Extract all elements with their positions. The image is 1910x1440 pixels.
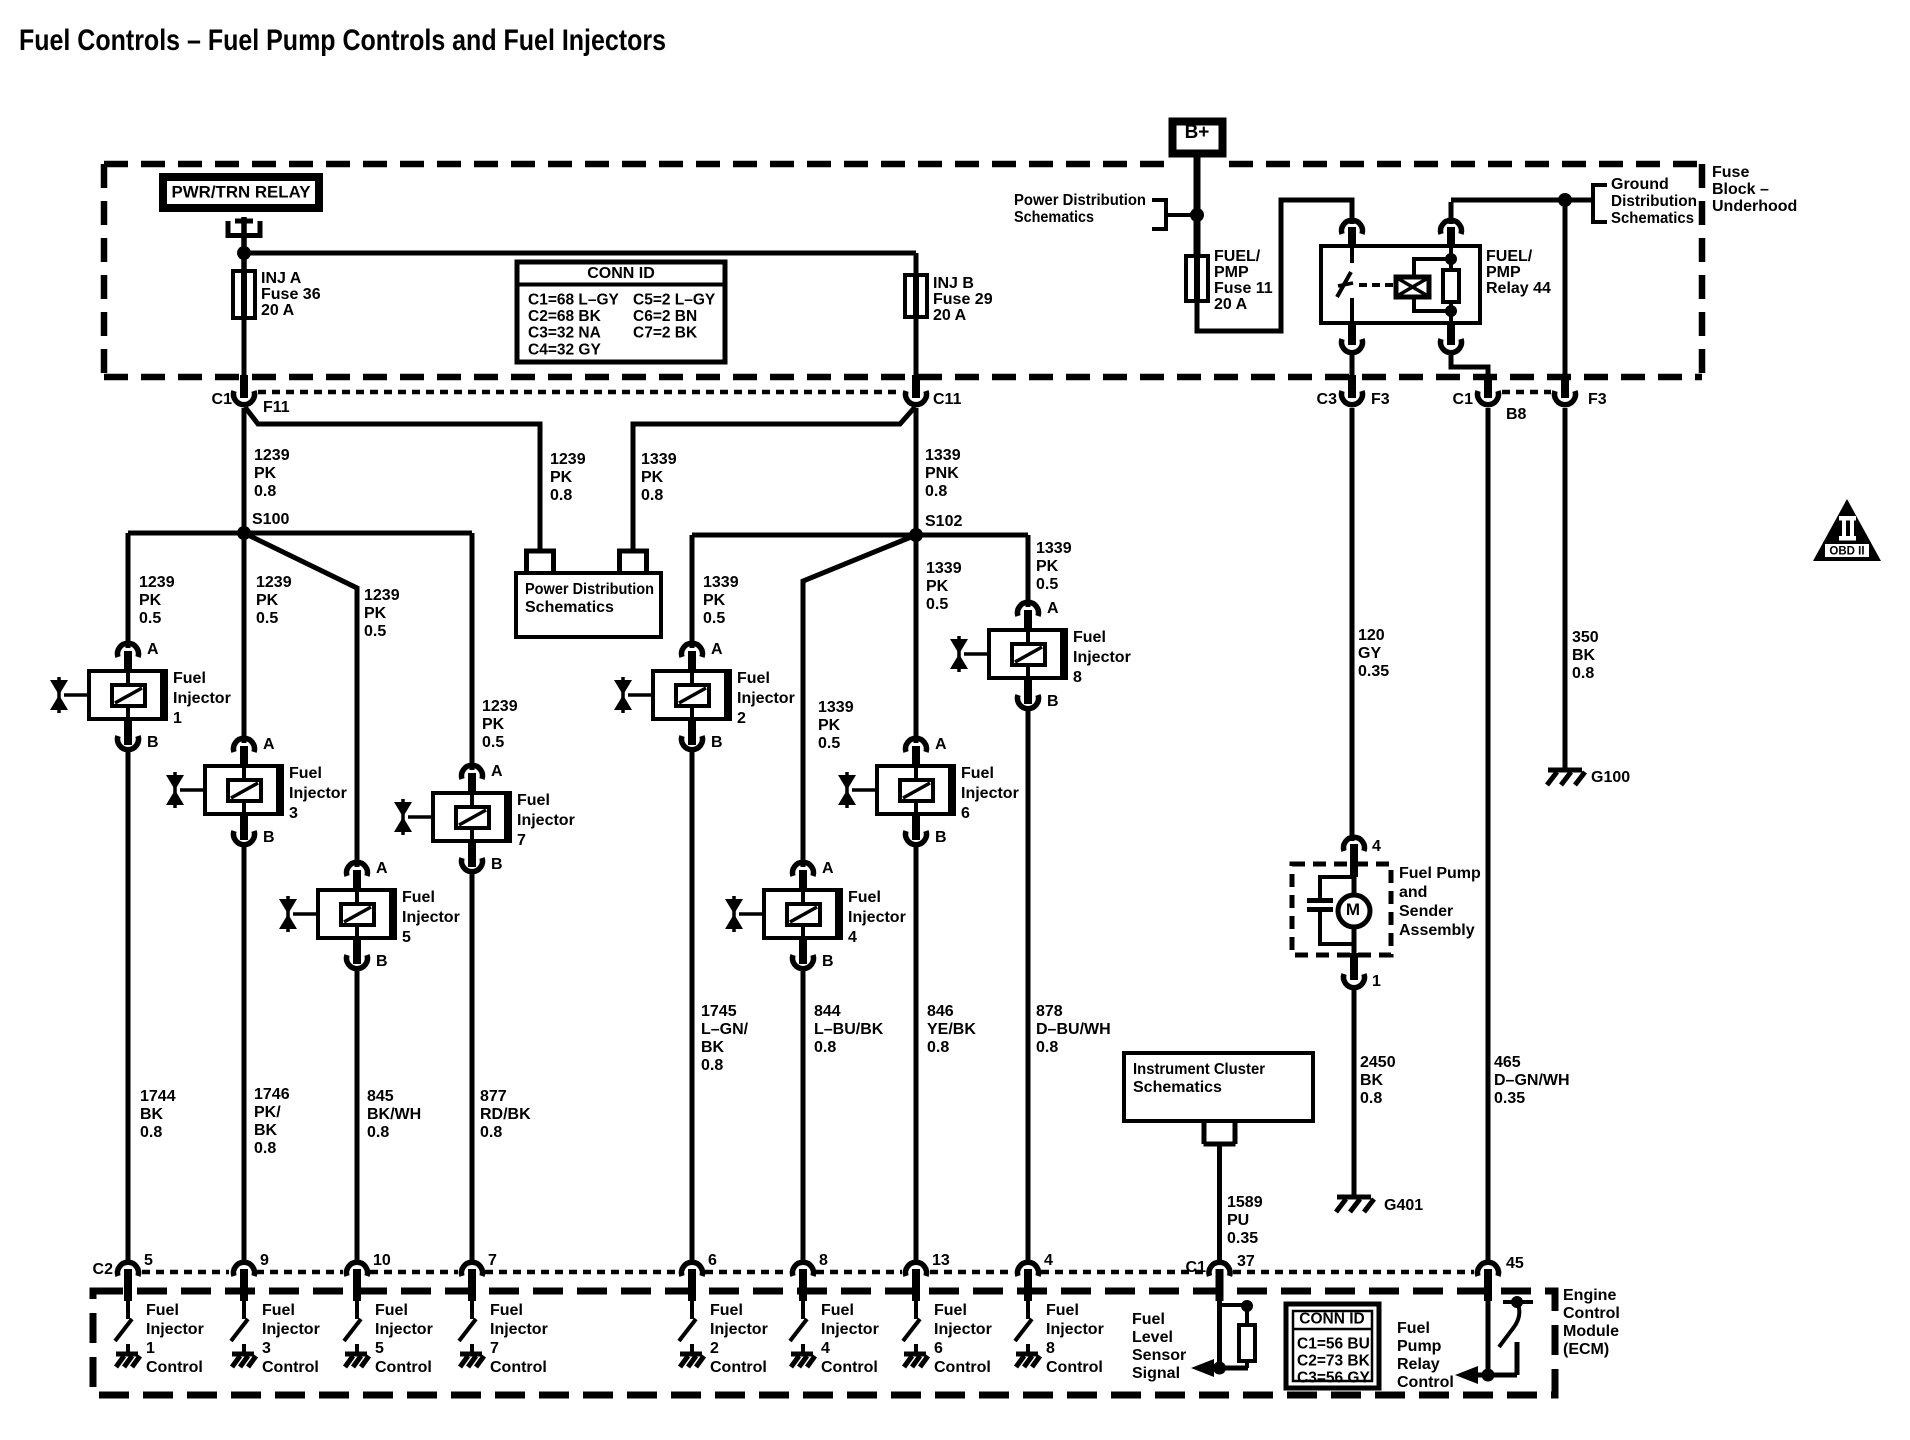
svg-text:0.8: 0.8 <box>367 1124 389 1141</box>
svg-text:Fuel: Fuel <box>402 889 435 906</box>
svg-text:PNK: PNK <box>925 465 959 482</box>
svg-text:4: 4 <box>848 929 857 946</box>
fuel injector 8 nozzle link wire <box>964 652 989 656</box>
svg-text:Control: Control <box>490 1359 547 1376</box>
wire 2450 BK 0.8 fuel pump to G401 <box>1352 990 1357 1197</box>
fuel injector 5 nozzle symbol <box>279 899 297 914</box>
svg-text:6: 6 <box>961 805 970 822</box>
svg-text:Injector: Injector <box>402 909 460 926</box>
ECM injector 4 driver ground <box>801 1344 805 1354</box>
splice S102 <box>909 528 923 542</box>
fuel injector 6 coil <box>900 780 933 801</box>
svg-text:Control: Control <box>1046 1359 1103 1376</box>
svg-text:Fuse 29: Fuse 29 <box>933 291 993 308</box>
svg-text:F11: F11 <box>263 399 290 416</box>
ECM pin 9 connector (injector 3) <box>234 1262 255 1276</box>
fuel injector 2 pin A connector <box>682 643 703 657</box>
svg-text:1: 1 <box>1372 973 1381 990</box>
wire 465 D-GN/WH 0.35 C1 to ECM pin 45 <box>1486 408 1491 1264</box>
fuel injector 1 nozzle symbol <box>50 680 68 695</box>
svg-text:Schematics: Schematics <box>1611 210 1694 227</box>
svg-text:9: 9 <box>260 1252 269 1269</box>
svg-text:0.8: 0.8 <box>641 487 663 504</box>
svg-text:3: 3 <box>262 1340 271 1357</box>
ECM injector 6 driver switch <box>914 1301 918 1319</box>
svg-text:G100: G100 <box>1591 769 1630 786</box>
svg-text:Injector: Injector <box>710 1321 768 1338</box>
svg-text:CONN ID: CONN ID <box>1299 1311 1364 1328</box>
connector bus C2 dotted line <box>142 1270 229 1275</box>
fuel injector 5 pin A connector <box>347 862 368 876</box>
svg-text:Injector: Injector <box>490 1321 548 1338</box>
svg-text:8: 8 <box>1046 1340 1055 1357</box>
svg-text:Fuel Controls – Fuel Pump Cont: Fuel Controls – Fuel Pump Controls and F… <box>19 24 666 57</box>
fuel level sensor resistor <box>1245 1306 1249 1325</box>
svg-text:13: 13 <box>932 1252 950 1269</box>
svg-text:1239: 1239 <box>550 451 586 468</box>
svg-text:PMP: PMP <box>1486 264 1521 281</box>
ECM pin 5 connector (injector 1) <box>118 1262 139 1276</box>
svg-text:0.8: 0.8 <box>701 1057 723 1074</box>
svg-text:GY: GY <box>1358 645 1381 662</box>
wire relay 44 to C1 connector <box>1451 355 1488 378</box>
svg-text:Injector: Injector <box>289 785 347 802</box>
svg-text:Fuel Pump: Fuel Pump <box>1399 865 1481 882</box>
svg-text:Schematics: Schematics <box>1014 209 1094 226</box>
svg-text:Fuel: Fuel <box>1073 629 1106 646</box>
wire 844 L-BU/BK 0.8 injector 4 to ECM <box>801 967 806 1264</box>
svg-text:C7=2 BK: C7=2 BK <box>633 325 698 342</box>
ECM pin 4 connector (injector 8) <box>1018 1262 1039 1276</box>
svg-text:Injector: Injector <box>517 812 575 829</box>
ECM injector 2 driver ground <box>690 1344 694 1354</box>
PWR/TRN relay terminal connector <box>226 221 231 238</box>
power distribution schematics reference bracket <box>1152 198 1166 202</box>
connector ID table CONN ID <box>517 262 725 362</box>
svg-text:Control: Control <box>146 1359 203 1376</box>
svg-text:Injector: Injector <box>737 690 795 707</box>
svg-text:D–GN/WH: D–GN/WH <box>1494 1072 1570 1089</box>
svg-text:2: 2 <box>737 710 746 727</box>
svg-text:45: 45 <box>1506 1255 1524 1272</box>
wire S100 bus horizontal <box>128 531 472 536</box>
svg-text:BK: BK <box>1360 1072 1384 1089</box>
svg-text:8: 8 <box>1073 669 1082 686</box>
node fuel level sensor signal junction <box>1213 1362 1226 1375</box>
connector C11 fuse block <box>912 375 920 398</box>
svg-text:PK: PK <box>364 605 387 622</box>
fuel injector 6 pin A connector <box>906 738 927 752</box>
svg-text:G401: G401 <box>1384 1197 1423 1214</box>
svg-text:PWR/TRN RELAY: PWR/TRN RELAY <box>172 183 312 202</box>
ECM injector 8 driver switch <box>1026 1301 1030 1319</box>
svg-text:Assembly: Assembly <box>1399 922 1475 939</box>
fuel injector 3 nozzle symbol <box>166 775 184 790</box>
wire 1339 PK 0.5 S102 to injector 6 <box>914 535 919 743</box>
svg-text:PK: PK <box>703 592 726 609</box>
svg-text:S102: S102 <box>925 513 962 530</box>
svg-text:B: B <box>147 734 159 751</box>
wire 1239 PK 0.5 S100 to injector 3 <box>242 533 247 743</box>
relay 44 switch contact <box>1350 246 1354 263</box>
svg-text:Injector: Injector <box>961 785 1019 802</box>
fuel injector 8 pin B connector <box>1024 678 1032 704</box>
svg-text:A: A <box>376 860 388 877</box>
svg-text:B: B <box>491 856 503 873</box>
fuel injector 8 coil <box>1012 644 1045 665</box>
node relay 44 coil top junction <box>1445 253 1457 265</box>
svg-text:0.5: 0.5 <box>256 610 278 627</box>
ECM injector 7 driver ground <box>470 1344 474 1354</box>
fuel injector 6 nozzle symbol <box>838 775 856 790</box>
svg-text:S100: S100 <box>252 511 289 528</box>
ECM injector 3 driver ground <box>242 1344 246 1354</box>
wire INJ A fuse to C1 <box>242 318 247 378</box>
fuel injector 6 body <box>877 766 954 814</box>
svg-text:F3: F3 <box>1588 391 1607 408</box>
fuel pump and sender assembly dashed box <box>1292 864 1391 955</box>
fuel injector 4 pin B connector <box>799 938 807 964</box>
svg-text:0.5: 0.5 <box>926 596 948 613</box>
svg-text:877: 877 <box>480 1088 507 1105</box>
fuel injector 8 nozzle symbol <box>950 639 968 654</box>
relay 44 pin 5 connector <box>1447 321 1455 345</box>
wire 845 BK/WH 0.8 injector 5 to ECM <box>355 967 360 1264</box>
svg-text:C6=2 BN: C6=2 BN <box>633 308 697 325</box>
wire 1339 PK 0.5 S102 to injector 4 <box>803 535 916 867</box>
fuel injector 7 nozzle symbol <box>394 802 412 817</box>
svg-text:1339: 1339 <box>925 447 961 464</box>
svg-text:Engine: Engine <box>1563 1287 1616 1304</box>
svg-text:Fuel: Fuel <box>146 1302 179 1319</box>
svg-text:10: 10 <box>373 1252 391 1269</box>
svg-text:B: B <box>1047 693 1059 710</box>
svg-text:BK: BK <box>701 1039 725 1056</box>
svg-text:2450: 2450 <box>1360 1054 1396 1071</box>
svg-text:C1: C1 <box>1186 1259 1207 1276</box>
svg-text:C11: C11 <box>933 391 962 408</box>
relay 44 coil <box>1396 277 1429 297</box>
svg-text:F3: F3 <box>1371 391 1390 408</box>
fuel injector 7 body <box>433 793 510 841</box>
ECM injector 4 driver switch <box>801 1301 805 1319</box>
power distribution schematics box <box>516 573 661 637</box>
svg-text:Fuel: Fuel <box>1397 1320 1430 1337</box>
fuel injector 7 nozzle link wire <box>408 815 433 819</box>
svg-text:B: B <box>935 829 947 846</box>
fuel injector 6 nozzle link wire <box>852 788 877 792</box>
svg-text:Control: Control <box>375 1359 432 1376</box>
svg-text:C2=73 BK: C2=73 BK <box>1297 1353 1371 1370</box>
svg-text:A: A <box>935 736 947 753</box>
svg-text:BK: BK <box>254 1122 278 1139</box>
relay FUEL/PMP Relay 44 pin 1 connector <box>1342 220 1363 234</box>
svg-text:C3: C3 <box>1317 391 1338 408</box>
relay 44 coil bracket wires <box>1414 259 1451 277</box>
svg-text:Sender: Sender <box>1399 903 1453 920</box>
svg-text:OBD II: OBD II <box>1829 546 1864 558</box>
svg-text:5: 5 <box>144 1252 153 1269</box>
wire 877 RD/BK 0.8 injector 7 to ECM <box>470 870 475 1264</box>
wire fuse 11 to relay 44 switch <box>1197 200 1352 331</box>
svg-text:3: 3 <box>289 805 298 822</box>
svg-text:Fuel: Fuel <box>1046 1302 1079 1319</box>
ECM pin 13 connector (injector 6) <box>906 1262 927 1276</box>
relay 44 resistor <box>1449 247 1453 270</box>
fuel pump motor output wire <box>1352 927 1357 956</box>
fuse INJ B Fuse 29 20A <box>913 273 919 319</box>
svg-text:1745: 1745 <box>701 1003 737 1020</box>
fuel injector 4 nozzle symbol <box>725 899 743 914</box>
svg-text:7: 7 <box>488 1252 497 1269</box>
fuel injector 4 pin A connector <box>793 862 814 876</box>
relay FUEL/PMP Relay 44 pin 2 connector <box>1449 202 1454 224</box>
fuel pump motor M <box>1338 895 1370 927</box>
fuel pump connector pin 1 <box>1350 953 1358 980</box>
svg-text:C3=32 NA: C3=32 NA <box>528 325 601 342</box>
svg-text:1239: 1239 <box>139 574 175 591</box>
svg-text:Level: Level <box>1132 1329 1173 1346</box>
svg-text:0.8: 0.8 <box>1572 665 1594 682</box>
ECM pin 10 connector (injector 5) <box>347 1262 368 1276</box>
svg-text:5: 5 <box>375 1340 384 1357</box>
svg-text:Schematics: Schematics <box>1133 1079 1222 1096</box>
wire INJ B fuse to C11 <box>914 317 919 378</box>
node B+ power distribution junction <box>1190 208 1204 222</box>
wire junction to INJ A fuse <box>241 253 247 272</box>
svg-text:846: 846 <box>927 1003 954 1020</box>
fuel injector 5 pin B connector <box>353 938 361 964</box>
svg-text:465: 465 <box>1494 1054 1521 1071</box>
ground distribution schematics reference bracket <box>1593 183 1607 187</box>
svg-text:C1: C1 <box>1453 391 1474 408</box>
ECM pin 6 connector (injector 2) <box>682 1262 703 1276</box>
svg-text:1339: 1339 <box>1036 540 1072 557</box>
svg-text:Fuel: Fuel <box>375 1302 408 1319</box>
svg-text:0.8: 0.8 <box>254 1140 276 1157</box>
wire relay 44 to C3 connector <box>1350 355 1355 378</box>
fuel level sensor signal wire in ECM <box>1217 1301 1222 1368</box>
ECM injector 8 driver ground <box>1026 1344 1030 1354</box>
svg-text:1339: 1339 <box>641 451 677 468</box>
wire relay coil feed from ground distribution schematics <box>1451 198 1593 203</box>
fuel injector 3 pin B connector <box>240 814 248 840</box>
connector bus B8 dotted line <box>1502 390 1551 395</box>
svg-text:2: 2 <box>710 1340 719 1357</box>
svg-text:0.8: 0.8 <box>1036 1039 1058 1056</box>
svg-text:Distribution: Distribution <box>1611 193 1697 210</box>
svg-text:1239: 1239 <box>254 447 290 464</box>
fuel injector 1 nozzle link wire <box>64 693 89 697</box>
ECM fuel pump relay driver switch <box>1503 1300 1533 1304</box>
svg-text:0.8: 0.8 <box>1360 1090 1382 1107</box>
svg-text:1339: 1339 <box>703 574 739 591</box>
wire 1239 PK 0.5 S100 to injector 1 <box>126 533 131 648</box>
svg-text:Power Distribution: Power Distribution <box>1014 192 1146 209</box>
ECM injector 1 driver switch <box>126 1301 130 1319</box>
svg-text:FUEL/: FUEL/ <box>1214 248 1261 265</box>
svg-text:0.8: 0.8 <box>814 1039 836 1056</box>
svg-text:B: B <box>822 953 834 970</box>
svg-text:Injector: Injector <box>146 1321 204 1338</box>
wire 1339 PK 0.5 S102 to injector 8 <box>1026 535 1031 607</box>
ECM injector 3 driver switch <box>242 1301 246 1319</box>
fuel level sensor pull-up branch <box>1220 1303 1248 1307</box>
svg-text:Relay: Relay <box>1397 1356 1440 1373</box>
connector C1/F11 fuse block <box>240 375 248 398</box>
svg-text:Fuel: Fuel <box>490 1302 523 1319</box>
fuel injector 3 body <box>205 766 282 814</box>
ECM pin 7 connector (injector 7) <box>461 1262 482 1276</box>
svg-text:A: A <box>263 736 275 753</box>
node fuel level sensor branch junction <box>1241 1300 1253 1312</box>
svg-text:Injector: Injector <box>848 909 906 926</box>
svg-text:1339: 1339 <box>818 699 854 716</box>
svg-text:C1: C1 <box>212 391 233 408</box>
svg-text:Underhood: Underhood <box>1712 198 1797 215</box>
svg-text:Injector: Injector <box>173 690 231 707</box>
svg-text:Fuel: Fuel <box>934 1302 967 1319</box>
svg-text:and: and <box>1399 884 1427 901</box>
svg-text:B: B <box>376 953 388 970</box>
svg-text:D–BU/WH: D–BU/WH <box>1036 1021 1111 1038</box>
fuel injector 1 coil <box>112 685 145 706</box>
svg-text:7: 7 <box>490 1340 499 1357</box>
svg-text:Injector: Injector <box>1046 1321 1104 1338</box>
fuel level sensor signal line with arrow <box>1212 1366 1248 1371</box>
svg-text:1746: 1746 <box>254 1086 290 1103</box>
svg-text:BK: BK <box>140 1106 164 1123</box>
wire 1589 PU 0.35 cluster to ECM pin 37 <box>1217 1146 1222 1264</box>
fuel injector 5 coil <box>341 904 374 925</box>
svg-text:845: 845 <box>367 1088 394 1105</box>
svg-text:B8: B8 <box>1506 406 1527 423</box>
svg-text:Fuse 11: Fuse 11 <box>1214 280 1273 297</box>
svg-text:PK: PK <box>926 578 949 595</box>
svg-text:B: B <box>263 829 275 846</box>
svg-text:Fuel: Fuel <box>173 670 206 687</box>
svg-text:PK: PK <box>256 592 279 609</box>
connector bus F11 dotted line <box>258 390 901 395</box>
fuel injector 3 pin A connector <box>234 738 255 752</box>
wire ground distribution to F3 <box>1563 200 1568 378</box>
svg-text:Schematics: Schematics <box>525 599 614 616</box>
svg-text:20 A: 20 A <box>933 307 967 324</box>
svg-text:PK: PK <box>482 716 505 733</box>
svg-text:Ground: Ground <box>1611 176 1669 193</box>
svg-text:1: 1 <box>173 710 182 727</box>
instrument cluster box foot <box>1204 1142 1236 1147</box>
fuel injector 5 nozzle link wire <box>293 912 318 916</box>
svg-text:5: 5 <box>402 929 411 946</box>
PWR/TRN RELAY label box <box>163 177 319 208</box>
fuel injector 3 coil <box>228 780 261 801</box>
fuel injector 2 pin B connector <box>688 719 696 745</box>
instrument cluster schematics box <box>1124 1053 1313 1121</box>
svg-text:Control: Control <box>1563 1305 1620 1322</box>
wire 120 GY 0.35 C3 to fuel pump <box>1350 408 1355 841</box>
ECM pin 37 connector <box>1209 1262 1230 1276</box>
wire 846 YE/BK 0.8 injector 6 to ECM <box>914 843 919 1264</box>
ECM injector 7 driver switch <box>470 1301 474 1319</box>
fuel injector 2 coil <box>676 685 709 706</box>
fuel injector 5 body <box>318 890 395 938</box>
svg-text:4: 4 <box>1044 1252 1053 1269</box>
fuse block underhood dashed box <box>104 161 1166 168</box>
fuel injector 1 pin B connector <box>124 719 132 745</box>
connector F3 fuse block right <box>1561 375 1569 398</box>
node fuel pump relay control junction <box>1482 1369 1495 1382</box>
wire 1745 L-GN/BK 0.8 injector 2 to ECM <box>690 748 695 1264</box>
svg-text:PK: PK <box>818 717 841 734</box>
svg-text:Injector: Injector <box>262 1321 320 1338</box>
fuel injector 7 coil <box>456 807 489 828</box>
svg-text:L–GN/: L–GN/ <box>701 1021 749 1038</box>
svg-text:1339: 1339 <box>926 560 962 577</box>
ground G100 <box>1548 768 1582 773</box>
wire 1746 PK/BK 0.8 injector 3 to ECM <box>242 843 247 1264</box>
wire B+ feed <box>1194 157 1201 258</box>
svg-text:Fuel: Fuel <box>961 765 994 782</box>
fuel injector 3 nozzle link wire <box>180 788 205 792</box>
svg-text:Pump: Pump <box>1397 1338 1442 1355</box>
svg-text:20 A: 20 A <box>261 302 295 319</box>
wire 1239 PK 0.5 S100 to injector 5 <box>244 533 357 867</box>
svg-text:Module: Module <box>1563 1323 1619 1340</box>
svg-text:CONN ID: CONN ID <box>587 265 655 282</box>
svg-text:Control: Control <box>710 1359 767 1376</box>
svg-text:RD/BK: RD/BK <box>480 1106 531 1123</box>
svg-text:37: 37 <box>1237 1253 1255 1270</box>
svg-text:Control: Control <box>262 1359 319 1376</box>
svg-text:BK: BK <box>1572 647 1596 664</box>
ECM injector 1 driver ground <box>126 1344 130 1354</box>
fuel injector 1 pin A connector <box>118 643 139 657</box>
relay 44 pin 3 connector <box>1348 321 1356 345</box>
svg-text:Instrument Cluster: Instrument Cluster <box>1133 1061 1265 1078</box>
svg-text:A: A <box>822 860 834 877</box>
svg-text:PK: PK <box>1036 558 1059 575</box>
svg-text:A: A <box>147 641 159 658</box>
svg-text:PK: PK <box>254 465 277 482</box>
engine control module dashed box <box>93 1291 1555 1395</box>
wire 1239 PK 0.5 S100 to injector 7 <box>470 533 475 770</box>
svg-text:Fuel: Fuel <box>821 1302 854 1319</box>
ECM injector 6 driver ground <box>914 1344 918 1354</box>
svg-text:1744: 1744 <box>140 1088 176 1105</box>
svg-text:Fuse: Fuse <box>1712 164 1749 181</box>
fuel injector 2 nozzle symbol <box>614 680 632 695</box>
svg-text:A: A <box>711 641 723 658</box>
fuel pump relay control wire in ECM <box>1486 1301 1491 1375</box>
fuel injector 2 nozzle link wire <box>628 693 653 697</box>
svg-text:1: 1 <box>146 1340 155 1357</box>
svg-text:0.8: 0.8 <box>550 487 572 504</box>
svg-text:A: A <box>491 763 503 780</box>
svg-text:C1=56 BU: C1=56 BU <box>1297 1336 1370 1353</box>
node relay 44 coil bottom junction <box>1445 305 1457 317</box>
svg-text:PK/: PK/ <box>254 1104 281 1121</box>
svg-text:Control: Control <box>821 1359 878 1376</box>
svg-text:M: M <box>1346 900 1360 919</box>
svg-text:PU: PU <box>1227 1212 1249 1229</box>
fuel injector 8 pin A connector <box>1018 602 1039 616</box>
svg-text:Power Distribution: Power Distribution <box>525 581 654 598</box>
fuel injector 4 body <box>764 890 841 938</box>
svg-text:C2: C2 <box>93 1261 114 1278</box>
fuse FUEL/PMP Fuse 11 20A <box>1194 254 1200 303</box>
svg-text:1239: 1239 <box>256 574 292 591</box>
